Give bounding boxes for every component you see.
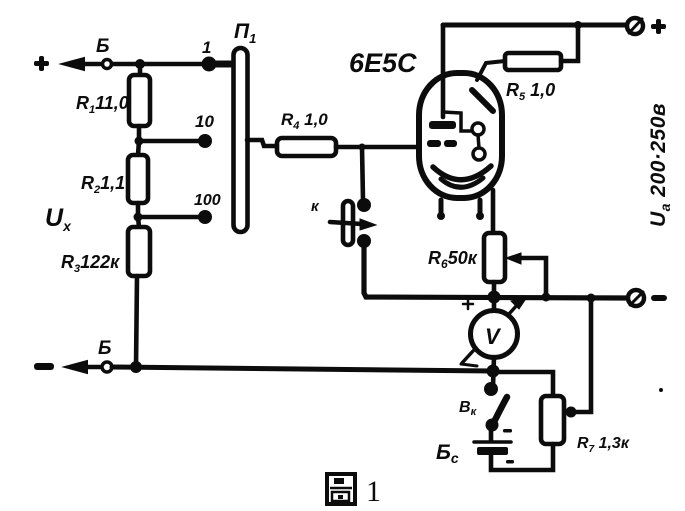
svg-text:6Е5С: 6Е5С <box>349 48 417 78</box>
wire: R5 left lead into deflector <box>477 61 505 80</box>
svg-text:1: 1 <box>366 475 381 508</box>
node junction wiper/cathode rail <box>542 293 551 302</box>
terminal circle top right with slash <box>627 18 643 34</box>
tube internal link to cap electrodes <box>443 112 472 131</box>
minus terminal mark bottom-left <box>34 363 54 370</box>
svg-text:Б: Б <box>96 36 109 57</box>
svg-text:1: 1 <box>202 38 211 57</box>
node junction at R1 top <box>135 59 145 69</box>
battery Бс long plate <box>474 440 511 444</box>
wire: top-left horizontal to switch contact 1 <box>112 62 208 67</box>
svg-text:R5 1,0: R5 1,0 <box>506 80 555 103</box>
switch Вк lever <box>492 397 507 426</box>
svg-text:Б: Б <box>98 338 111 359</box>
tube electrode circle lower <box>473 148 485 160</box>
wire: R4 to tube grid <box>336 145 424 150</box>
node contact 100 (dot) <box>198 210 212 224</box>
voltmeter V <box>471 311 518 358</box>
switch П1 bar <box>234 48 248 232</box>
resistor R2 <box>128 141 148 217</box>
wire: key down and right along cathode rail <box>364 246 626 298</box>
svg-text:Uх: Uх <box>45 204 72 234</box>
resistor R1 <box>129 64 150 141</box>
terminal circle mid right with slash <box>628 290 644 306</box>
svg-text:R7 1,3к: R7 1,3к <box>577 435 630 455</box>
battery Бс short plate <box>477 447 508 455</box>
plus polarity mark at voltmeter <box>463 299 473 309</box>
node junction R1/R2 <box>135 137 144 146</box>
node junction right branch/cathode rail <box>587 294 596 303</box>
svg-text:R3122к: R3122к <box>61 252 120 275</box>
svg-text:R4 1,0: R4 1,0 <box>281 110 328 132</box>
minus mark mid right <box>651 295 667 301</box>
tube grid dash 2 <box>444 140 457 147</box>
wire: R7 bottom to battery loop <box>491 444 553 470</box>
key К bar <box>343 201 353 245</box>
wire: voltmeter bottom to junction <box>493 357 494 386</box>
R6 wiper arrow <box>506 253 546 297</box>
tube 6Е5С envelope <box>419 73 502 198</box>
svg-text:П1: П1 <box>234 20 256 46</box>
node Б terminal circle (top) <box>103 60 112 69</box>
wire: bottom horizontal rail to voltmeter junction <box>112 367 493 371</box>
caption 圖 glyph <box>327 474 355 504</box>
node junction grid/key <box>359 144 366 151</box>
minus mark at battery <box>503 429 512 433</box>
tube pin 1 <box>437 200 445 220</box>
key К lower contact <box>357 234 371 248</box>
resistor R3 <box>128 217 150 367</box>
node contact 1 (dot) <box>202 57 217 72</box>
resistor R5 <box>505 53 561 70</box>
node junction R5 riser / top rail <box>574 21 582 29</box>
svg-text:Бс: Бс <box>436 441 459 466</box>
wire: anode top rail <box>443 23 626 28</box>
node junction R3/bottom rail <box>130 361 142 373</box>
svg-text:V: V <box>485 324 502 349</box>
resistor R7 <box>541 396 564 444</box>
tube deflector diagonal <box>472 90 493 111</box>
voltmeter adjustment arrow <box>461 297 527 366</box>
svg-text:R21,1: R21,1 <box>81 173 125 196</box>
svg-text:Вк: Вк <box>459 399 478 418</box>
wire tap to contact 100 <box>138 215 204 220</box>
R7 wiper dot <box>566 407 577 418</box>
wire: cathode lead from tube to R6 <box>491 190 496 233</box>
node junction bottom rail / voltmeter <box>487 365 500 378</box>
wire: switch wiper to R4 <box>247 140 277 146</box>
plus terminal mark top-left <box>34 56 49 71</box>
wire: branch to R7 top <box>493 372 553 396</box>
wire: Вк to battery <box>489 430 494 441</box>
switch Вк upper contact <box>484 382 498 396</box>
wire tap to contact 10 <box>139 139 204 144</box>
tube anode plate bar <box>429 121 456 129</box>
tube target arc outer <box>433 166 491 180</box>
key К upper contact <box>357 198 371 212</box>
node contact 10 (dot) <box>198 134 212 148</box>
switch Вк lower contact <box>486 419 499 432</box>
svg-text:10: 10 <box>195 112 214 131</box>
key К lever with arrow <box>330 219 376 230</box>
arrow from contact 1 to switch bar <box>215 61 232 68</box>
arrow into node Б (top-left, pointing left) <box>62 58 100 70</box>
node Б terminal circle (bottom) <box>102 362 112 372</box>
wire: R5 right lead up to top rail <box>561 25 578 61</box>
plus tick at battery <box>506 460 514 464</box>
plus mark top right <box>651 19 666 34</box>
svg-text:R650к: R650к <box>428 248 478 271</box>
arrow into node Б (bottom, pointing left) <box>65 361 100 373</box>
wire: junction down to key К <box>362 147 363 200</box>
tube electrode circle upper <box>472 123 484 135</box>
node junction R6/cathode rail <box>488 291 501 304</box>
wire: right branch down to R7 wiper <box>572 298 591 412</box>
tube electrode connecting stem <box>478 135 479 148</box>
scan speck artifact <box>659 388 663 392</box>
tube pin 2 <box>476 200 484 220</box>
svg-text:Uа 200·250в: Uа 200·250в <box>647 103 673 227</box>
tube anode top lead <box>441 25 446 117</box>
svg-text:R111,0: R111,0 <box>76 93 129 116</box>
wire: R6 bottom to cathode rail and voltmeter <box>492 282 497 311</box>
svg-text:100: 100 <box>194 192 221 209</box>
tube grid dash 1 <box>427 140 441 147</box>
resistor R6 (potentiometer) <box>484 233 505 282</box>
tube target arc inner <box>441 178 483 187</box>
node junction R2/R3 <box>134 213 143 222</box>
svg-text:к: к <box>311 198 320 215</box>
resistor R4 <box>277 138 336 156</box>
